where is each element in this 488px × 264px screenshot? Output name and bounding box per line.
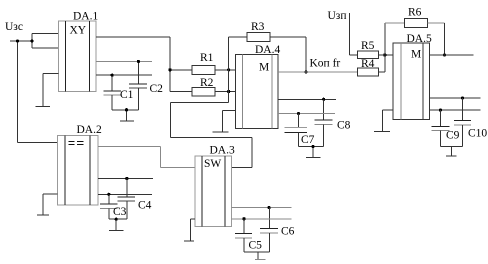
ground C3 C4 [109,201,127,230]
svg-text:C1: C1 [120,89,134,101]
wire DA.3 out1 stub [232,207,292,209]
wire C2 tap [137,61,139,84]
node junction dot bracket [30,39,33,42]
wire DA.1 pin1 to R1 R2 [96,37,192,91]
svg-text:DA.3: DA.3 [210,145,235,157]
node junction dot C2 [137,60,140,63]
capacitor C4 [117,197,135,201]
wire wrap to DA.3 right [171,103,252,168]
capacitor C5 [235,233,252,238]
wire C5 tap [243,219,245,234]
wire C4 tap [126,179,128,198]
node junction dot C3 [107,193,110,196]
ground C1 C2 [112,88,138,121]
wire R1 right [215,69,236,71]
svg-text:C2: C2 [150,83,164,95]
wire DA.3 out2 stub [232,218,292,220]
capacitor C8 [315,120,333,125]
wire DA.1 pin3 stub [96,74,152,76]
capacitor C7 [285,128,308,133]
node junction dot R5 right [383,53,386,56]
wire C8 tap [323,99,325,120]
capacitor C2 [129,84,147,88]
wire R3 riser [228,37,230,103]
capacitor C9 [432,126,450,130]
node junction dot R6 drop [443,53,446,56]
wire R6 right [427,23,444,55]
op-amp U4 DA.4 block [236,54,278,128]
node junction dot C9 [439,109,442,112]
svg-text:DA.2: DA.2 [77,124,102,136]
wire C7 tap [298,113,300,127]
capacitor C1 [103,91,121,95]
node junction dot gnd C3C4 [115,218,118,221]
node junction dot Uzs [16,39,19,42]
wire DA.2 to DA.3 [98,147,195,168]
wire DA.5 out2 [430,97,481,99]
svg-text:R1: R1 [200,52,214,64]
ground DA.4 [213,110,236,132]
wire R3 right drop [305,37,307,72]
resistor R1 [192,66,215,75]
ground C9 C10 [440,125,462,156]
svg-text:C6: C6 [281,226,295,238]
node junction dot C8 [322,98,325,101]
resistor R5 [357,51,378,59]
svg-text:C8: C8 [337,120,351,132]
ground DA.5 [374,110,393,131]
svg-text:M: M [259,61,269,73]
svg-text:C9: C9 [446,130,460,142]
wire C10 tap [462,98,464,120]
svg-text:C5: C5 [249,240,263,252]
svg-text:SW: SW [204,158,221,170]
node junction dot C1 [111,74,114,77]
resistor R4 [357,68,378,76]
svg-text:R6: R6 [408,7,422,19]
node junction dot C4 [125,177,128,180]
wire DA.1 pin2 stub [96,60,152,62]
capacitor C6 [260,228,278,232]
wire Kop fr [278,71,358,73]
svg-text:R5: R5 [361,40,375,52]
svg-text:Uзс: Uзс [5,21,23,33]
node junction dot gnd C1C2 [125,108,128,111]
svg-text:R4: R4 [361,58,375,70]
svg-text:M: M [411,49,421,61]
svg-text:R3: R3 [251,21,265,33]
wire DA.5 out3 [430,109,481,111]
wire C9 tap [439,110,441,126]
svg-text:XY: XY [70,25,87,37]
resistor R3 [229,32,306,41]
node junction dot Kop [304,70,307,73]
wire DA.4 out2 [278,112,335,114]
node junction dot R2 right [227,90,230,93]
node junction dot C5 [242,217,245,220]
ground DA.1 [36,74,59,107]
wire C1 tap [111,75,113,91]
node junction dot C6 [268,206,271,209]
switch U3 DA.3 block [195,156,232,227]
svg-text:C3: C3 [113,206,127,218]
wire DA.2 out1 stub [98,178,153,180]
capacitor C3 [100,204,117,208]
wire C6 tap [268,208,270,229]
node junction dot R1 right [227,68,230,71]
node DA.2 equals symbol [69,141,84,144]
svg-text:Uзп: Uзп [328,10,347,22]
op-amp U2 DA.2 block [58,135,98,205]
node junction dot C10 [461,96,464,99]
ground DA.3 [184,219,195,241]
ground DA.2 [37,194,58,215]
op-amp U5 DA.5 block [393,43,429,120]
op-amp U1 DA.1 block [59,21,97,92]
node junction dot gnd C7C8 [311,145,314,148]
wire DA.5 output [430,54,474,56]
node junction dot C7 [297,112,300,115]
resistor R2 [192,87,215,96]
svg-text:DA.1: DA.1 [73,10,98,22]
svg-text:R2: R2 [200,77,214,89]
svg-text:DA.4: DA.4 [255,44,280,56]
svg-text:C7: C7 [301,134,315,146]
svg-text:C4: C4 [138,200,152,212]
wire Uzs input [10,41,58,143]
wire input bracket to DA.1 [32,33,59,48]
node junction dot R1 left [168,68,171,71]
svg-text:DA.5: DA.5 [407,33,432,45]
wire R2 right [215,91,236,93]
wire Uzp drop [350,13,358,55]
wire R4 right riser [378,23,404,72]
resistor R6 [404,19,427,28]
capacitor C10 [454,120,471,125]
wire R5 right [378,54,393,56]
wire DA.4 out1 [278,98,336,100]
ground C5 C6 [244,233,269,260]
svg-text:C10: C10 [468,128,487,140]
wire C3 tap [108,194,110,204]
svg-text:Kоп fr: Kоп fr [310,58,341,70]
wire DA.2 out2 stub [98,193,152,195]
ground C7 C8 [299,125,324,158]
